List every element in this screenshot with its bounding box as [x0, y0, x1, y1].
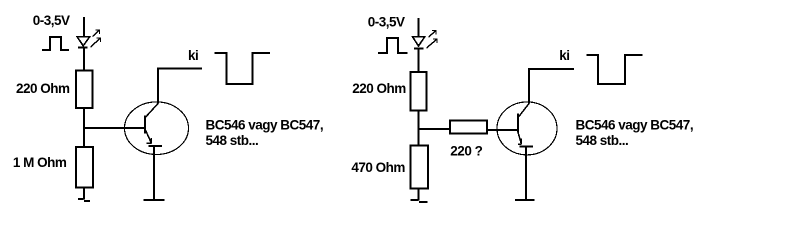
wire: emitter to ground left [153, 146, 155, 200]
transistor Q1 base bar left [144, 116, 146, 134]
emitter terminal bar left [148, 145, 162, 147]
transistor Q2 emitter diagonal right [517, 130, 521, 144]
wire: series resistor to base right [487, 129, 518, 131]
wire: LED cathode to R3 right [418, 49, 420, 73]
wire: base branch to series resistor right [419, 128, 450, 130]
svg-text:220 ?: 220 ? [450, 144, 482, 159]
output waveform left [215, 53, 270, 84]
svg-text:BC546 vagy BC547,: BC546 vagy BC547, [576, 118, 694, 133]
resistor R3 220 Ohm right [411, 72, 427, 111]
transistor Q2 base bar right [517, 114, 519, 133]
transistor Q1 circle left [125, 102, 189, 155]
ground under R4 right [410, 200, 427, 202]
svg-text:220 Ohm: 220 Ohm [352, 81, 406, 96]
resistor R1 220 Ohm left [76, 71, 93, 109]
wire: supply to LED anode right [418, 18, 420, 37]
svg-text:0-3,5V: 0-3,5V [368, 15, 405, 30]
svg-text:ki: ki [559, 48, 569, 63]
input pulse waveform right [378, 38, 408, 53]
wire: base branch left [84, 127, 145, 129]
ground under R2 left [78, 199, 90, 201]
svg-text:548 stb...: 548 stb... [206, 133, 259, 148]
LED D1 light arrow upper left [93, 30, 100, 37]
wire: supply to LED anode left [83, 17, 85, 37]
ground under Q1 left [144, 199, 165, 201]
svg-text:220 Ohm: 220 Ohm [16, 81, 70, 96]
ground under Q2 right [515, 199, 535, 201]
svg-text:BC546 vagy BC547,: BC546 vagy BC547, [206, 118, 324, 133]
resistor R4 470 Ohm right [410, 145, 428, 188]
wire: collector up and out right [529, 69, 574, 104]
emitter terminal bar right [519, 145, 533, 147]
LED D1 light arrow lower left [91, 38, 101, 47]
wire: R2 to ground left [83, 188, 85, 200]
svg-text:470 Ohm: 470 Ohm [351, 160, 405, 175]
LED D2 light arrow lower right [427, 39, 438, 48]
transistor Q2 collector diagonal right [517, 104, 529, 119]
svg-text:0-3,5V: 0-3,5V [33, 13, 70, 28]
transistor Q2 emitter arrowhead right [518, 139, 522, 145]
output waveform right [587, 55, 643, 84]
LED D1 left [77, 37, 90, 48]
transistor Q1 emitter diagonal left [145, 129, 152, 144]
svg-text:1 M Ohm: 1 M Ohm [13, 155, 67, 170]
wire: R3 to R4 right [418, 111, 420, 146]
wire: LED cathode to R1 left [83, 48, 85, 71]
transistor Q1 emitter arrowhead left [147, 138, 152, 144]
transistor Q1 collector diagonal left [145, 104, 158, 119]
wire: R1 to R2 left [83, 108, 85, 147]
wire: emitter to ground right [525, 146, 527, 200]
svg-text:ki: ki [188, 48, 198, 63]
LED D2 light arrow upper right [429, 31, 437, 38]
input pulse waveform left [42, 37, 69, 50]
resistor R2 1 M Ohm left [76, 147, 93, 188]
wire: collector up and out left [158, 68, 202, 103]
svg-text:548 stb...: 548 stb... [576, 133, 629, 148]
wire: R4 to ground right [418, 189, 420, 201]
LED D2 right [413, 37, 425, 49]
resistor R5 220 ? series right [450, 121, 487, 134]
transistor Q2 circle right [497, 102, 557, 155]
